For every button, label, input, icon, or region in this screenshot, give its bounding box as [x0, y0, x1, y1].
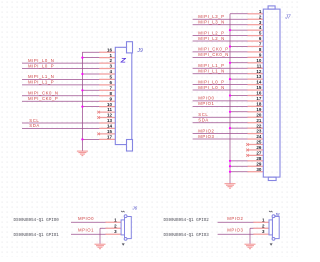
svg-text:3: 3: [262, 229, 265, 234]
svg-text:SDA: SDA: [198, 118, 209, 123]
svg-text:MIPI_L0_P: MIPI_L0_P: [198, 79, 224, 84]
svg-text:7: 7: [259, 42, 262, 47]
svg-text:MPIO3: MPIO3: [227, 228, 243, 233]
svg-text:15: 15: [256, 85, 262, 90]
svg-text:16: 16: [107, 47, 113, 52]
svg-text:J7: J7: [284, 15, 291, 21]
svg-text:MIPI_CK0_N: MIPI_CK0_N: [28, 91, 59, 96]
svg-text:9: 9: [259, 52, 262, 57]
svg-text:MIPI_L1_N: MIPI_L1_N: [28, 74, 54, 79]
svg-text:MPIO0: MPIO0: [198, 96, 214, 101]
svg-text:19: 19: [256, 107, 262, 112]
svg-text:1: 1: [259, 9, 262, 14]
svg-text:MIPI_L1_P: MIPI_L1_P: [198, 63, 224, 68]
svg-text:5: 5: [259, 31, 262, 36]
svg-text:MPIO3: MPIO3: [198, 134, 214, 139]
svg-text:17: 17: [107, 134, 113, 139]
svg-text:2: 2: [114, 223, 117, 228]
svg-text:3: 3: [114, 229, 117, 234]
svg-text:MIPI_L1_P: MIPI_L1_P: [28, 80, 54, 85]
svg-text:12: 12: [107, 113, 113, 118]
svg-text:MIPI_CK0_P: MIPI_CK0_P: [198, 47, 228, 52]
svg-text:8: 8: [259, 47, 262, 52]
svg-text:26: 26: [256, 145, 262, 150]
svg-text:15: 15: [107, 129, 113, 134]
svg-text:1: 1: [262, 217, 265, 222]
svg-text:MIPI_L0_P: MIPI_L0_P: [28, 63, 54, 68]
svg-text:MIPI_CK0_N: MIPI_CK0_N: [198, 52, 229, 57]
svg-text:MPIO1: MPIO1: [198, 101, 214, 106]
svg-text:24: 24: [256, 134, 262, 139]
svg-text:6: 6: [259, 36, 262, 41]
svg-text:6: 6: [109, 80, 112, 85]
svg-text:17: 17: [256, 96, 262, 101]
svg-text:30: 30: [256, 167, 262, 172]
svg-text:2: 2: [259, 14, 262, 19]
svg-text:29: 29: [256, 161, 262, 166]
svg-text:MIPI_L0_N: MIPI_L0_N: [198, 85, 224, 90]
svg-text:9: 9: [109, 96, 112, 101]
svg-text:MIPI_L1_N: MIPI_L1_N: [198, 69, 224, 74]
svg-text:27: 27: [256, 150, 262, 155]
svg-text:2: 2: [109, 58, 112, 63]
svg-text:3: 3: [259, 20, 262, 25]
svg-text:5: 5: [109, 75, 112, 80]
svg-text:MIPI_L3_P: MIPI_L3_P: [198, 14, 224, 19]
svg-text:DS90UB954-Q1 GPIO1: DS90UB954-Q1 GPIO1: [14, 234, 60, 238]
svg-text:25: 25: [256, 140, 262, 145]
svg-text:10: 10: [107, 102, 113, 107]
svg-text:J6: J6: [131, 205, 137, 210]
svg-text:11: 11: [257, 63, 262, 68]
svg-text:4: 4: [109, 69, 112, 74]
svg-text:23: 23: [256, 129, 262, 134]
svg-text:1: 1: [109, 53, 112, 58]
svg-text:MIPI_L2_P: MIPI_L2_P: [198, 30, 224, 35]
svg-text:13: 13: [107, 118, 113, 123]
svg-text:MPIO2: MPIO2: [227, 216, 243, 221]
svg-text:18: 18: [256, 101, 262, 106]
svg-text:14: 14: [256, 80, 262, 85]
svg-text:7: 7: [109, 85, 112, 90]
svg-text:16: 16: [256, 91, 262, 96]
svg-text:MPIO0: MPIO0: [78, 216, 94, 221]
svg-text:21: 21: [256, 118, 262, 123]
svg-text:10: 10: [256, 58, 262, 63]
svg-text:SDA: SDA: [29, 123, 40, 128]
svg-text:MIPI_CK0_P: MIPI_CK0_P: [28, 96, 58, 101]
svg-text:SCL: SCL: [198, 112, 208, 117]
svg-text:SCL: SCL: [29, 118, 39, 123]
svg-text:DS90UB954-Q1 GPIO0: DS90UB954-Q1 GPIO0: [14, 219, 60, 223]
svg-text:11: 11: [107, 107, 112, 112]
svg-text:MIPI_L3_N: MIPI_L3_N: [198, 19, 224, 24]
svg-text:Z: Z: [119, 58, 126, 65]
svg-text:MPIO2: MPIO2: [198, 128, 214, 133]
svg-text:28: 28: [256, 156, 262, 161]
svg-text:DS90UB954-Q1 GPIO2: DS90UB954-Q1 GPIO2: [164, 219, 210, 223]
svg-text:J8: J8: [274, 212, 280, 217]
svg-text:MIPI_L0_N: MIPI_L0_N: [28, 58, 54, 63]
svg-text:J9: J9: [137, 48, 144, 54]
svg-text:13: 13: [256, 74, 262, 79]
svg-text:4: 4: [259, 25, 262, 30]
svg-text:14: 14: [107, 124, 113, 129]
svg-text:DS90UB954-Q1 GPIO3: DS90UB954-Q1 GPIO3: [164, 234, 210, 238]
svg-text:MPIO1: MPIO1: [78, 228, 94, 233]
svg-text:2: 2: [262, 223, 265, 228]
svg-text:8: 8: [109, 91, 112, 96]
svg-text:MIPI_L2_N: MIPI_L2_N: [198, 36, 224, 41]
svg-text:20: 20: [256, 112, 262, 117]
svg-text:1: 1: [114, 217, 117, 222]
svg-text:12: 12: [256, 69, 262, 74]
svg-text:3: 3: [109, 64, 112, 69]
svg-text:22: 22: [256, 123, 262, 128]
